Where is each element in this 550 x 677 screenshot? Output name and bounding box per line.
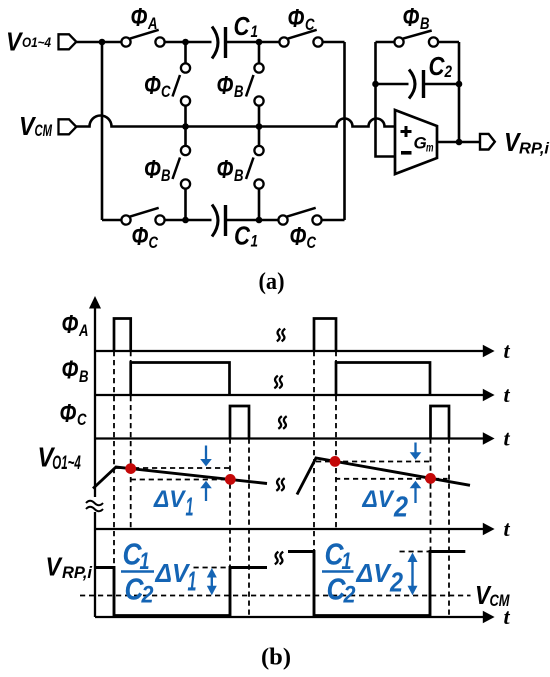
svg-text:O1~4: O1~4 — [22, 34, 51, 50]
capacitor C1 bottom — [212, 205, 226, 237]
svg-text:CM: CM — [490, 592, 511, 610]
svg-text:Φ: Φ — [131, 2, 148, 32]
PhiA pulses — [114, 319, 336, 352]
svg-text:ΔV: ΔV — [356, 558, 393, 588]
svg-text:2: 2 — [141, 582, 154, 609]
svg-text:ΔV: ΔV — [155, 558, 191, 588]
wire right vertical — [343, 42, 346, 220]
wire left vertical — [101, 42, 104, 220]
svg-text:RP,i: RP,i — [519, 141, 550, 158]
svg-text:2: 2 — [444, 62, 453, 81]
wire top rail left — [76, 41, 121, 44]
switch PhiB column1 lower — [173, 146, 191, 189]
label PhiC column1 upper — [144, 70, 171, 101]
svg-text:A: A — [147, 14, 157, 33]
svg-text:(b): (b) — [261, 644, 291, 671]
capacitor C2 — [376, 70, 460, 99]
svg-text:2: 2 — [393, 492, 408, 524]
C2 block top wire — [376, 41, 460, 44]
wire bottom rail after C1 — [227, 219, 278, 222]
node junction bottom rail x=259 — [256, 217, 263, 224]
svg-text:B: B — [234, 166, 244, 185]
output pin VRP,i — [480, 134, 495, 150]
svg-text:RP,i: RP,i — [62, 564, 92, 582]
dashed guide horizontals — [116, 462, 448, 568]
wire bottom rail mid — [165, 219, 212, 222]
node junction mid rail x=259 — [256, 123, 263, 130]
switch PhiB column2 lower — [246, 146, 264, 189]
svg-text:t: t — [504, 382, 511, 407]
switch PhiC top-right — [279, 30, 322, 47]
node VCM label — [19, 111, 53, 141]
C2 block right vertical wire — [458, 42, 461, 142]
svg-text:V: V — [46, 552, 64, 582]
wire VCM rail with hops — [76, 116, 395, 127]
axis VRP row — [95, 616, 484, 618]
svg-text:B: B — [79, 367, 89, 386]
node VRP,i label — [504, 127, 550, 158]
svg-text:1: 1 — [188, 566, 197, 597]
label PhiB C2 — [403, 2, 430, 33]
wire column1 segments — [184, 42, 187, 220]
svg-text:C: C — [234, 221, 251, 251]
node junction C2 left — [372, 81, 379, 88]
svg-text:1: 1 — [251, 232, 259, 251]
label VCM level — [475, 580, 510, 610]
svg-text:C: C — [149, 233, 159, 252]
label PhiB column2 lower — [217, 154, 244, 185]
label C1 top — [234, 11, 259, 41]
svg-text:Φ: Φ — [403, 2, 420, 32]
label deltaV2 VRP — [356, 558, 404, 598]
node junction top rail x=259 — [256, 39, 263, 46]
svg-text:Φ: Φ — [144, 154, 161, 184]
label VRP,i row — [46, 552, 93, 583]
break PhiB row — [274, 376, 282, 389]
label PhiA — [131, 2, 158, 33]
svg-text:Φ: Φ — [60, 398, 77, 428]
svg-text:G: G — [414, 134, 427, 153]
label VO1~4 row — [38, 442, 82, 475]
svg-text:C: C — [307, 233, 317, 252]
svg-text:Φ: Φ — [62, 309, 79, 339]
break PhiC row — [278, 416, 286, 429]
fraction C1/C2 second — [322, 537, 356, 609]
axis break left — [86, 501, 103, 512]
switch PhiB column2 upper — [246, 63, 264, 105]
wire column2 segments — [258, 42, 261, 220]
node junction bottom rail x=185 — [182, 217, 189, 224]
label PhiC row — [60, 398, 88, 429]
wire bottom rail right — [322, 219, 345, 222]
input pin VCM — [59, 119, 77, 134]
label PhiB row — [62, 355, 89, 387]
svg-text:t: t — [504, 426, 511, 451]
svg-text:2: 2 — [389, 567, 403, 598]
VRP waveform — [95, 552, 465, 616]
svg-text:Φ: Φ — [132, 221, 149, 251]
svg-text:Φ: Φ — [290, 221, 307, 251]
svg-text:C: C — [161, 82, 171, 101]
switch PhiC bottom-left — [121, 208, 164, 225]
label C2 — [429, 51, 453, 81]
svg-text:A: A — [78, 321, 88, 340]
svg-text:B: B — [234, 82, 244, 101]
sample dot 3 — [330, 456, 341, 467]
label PhiC bottom-right — [290, 221, 317, 252]
svg-text:Φ: Φ — [217, 154, 234, 184]
axis vertical — [94, 299, 96, 617]
capacitor C1 top — [212, 27, 226, 59]
switch PhiC bottom-right — [278, 208, 321, 225]
deltaV2 arrows — [410, 443, 422, 504]
svg-text:1: 1 — [186, 492, 194, 522]
fraction C1/C2 first — [121, 537, 154, 609]
label PhiC top-right — [288, 3, 316, 34]
svg-text:B: B — [161, 166, 171, 185]
label C1 bottom — [234, 221, 258, 251]
dashed line VCM level — [80, 595, 471, 597]
measure arrow C1C2dV2 — [408, 553, 418, 596]
svg-text:Φ: Φ — [144, 70, 161, 100]
VO waveform segment 2 — [297, 458, 470, 495]
svg-text:t: t — [504, 338, 511, 363]
svg-text:2: 2 — [343, 582, 356, 609]
axis PhiA row — [95, 350, 484, 352]
label deltaV2 — [362, 486, 408, 524]
svg-text:B: B — [420, 14, 430, 33]
label PhiC bottom-left — [132, 221, 159, 252]
node junction top rail x=185 — [182, 39, 189, 46]
svg-text:1: 1 — [251, 22, 259, 41]
svg-text:m: m — [426, 141, 434, 155]
op-amp Gm — [395, 110, 437, 174]
wire top rail right — [323, 41, 345, 44]
axis VO row — [95, 528, 484, 530]
wire top rail mid — [165, 41, 212, 44]
measure arrow C1C2dV1 — [207, 568, 217, 595]
deltaV1 arrows — [200, 446, 212, 502]
svg-text:(a): (a) — [259, 268, 285, 295]
axis PhiC row — [95, 437, 484, 439]
sample dot 4 — [425, 473, 436, 484]
sample dot 2 — [225, 474, 236, 485]
node junction C2 right — [456, 81, 463, 88]
svg-text:Φ: Φ — [62, 355, 79, 385]
switch PhiB C2 — [394, 31, 438, 47]
svg-text:C: C — [305, 15, 315, 34]
PhiB pulses — [131, 363, 430, 396]
sample dot 1 — [125, 463, 136, 474]
svg-text:CM: CM — [35, 122, 53, 140]
switch PhiC column1 upper — [173, 63, 191, 105]
node junction top-left — [99, 39, 106, 46]
svg-text:Φ: Φ — [217, 70, 234, 100]
svg-text:C: C — [77, 410, 87, 429]
break VRP row — [275, 552, 283, 565]
switch PhiA — [121, 30, 164, 47]
break VO row — [276, 478, 284, 491]
svg-text:Φ: Φ — [288, 3, 305, 33]
label PhiB column1 lower — [144, 154, 171, 185]
axis PhiB row — [95, 394, 484, 396]
svg-text:O1~4: O1~4 — [52, 453, 81, 474]
label deltaV1 VRP — [155, 558, 197, 597]
break PhiA row — [277, 329, 285, 342]
svg-text:C: C — [234, 11, 251, 41]
input pin VO1~4 — [59, 34, 77, 49]
svg-text:t: t — [504, 516, 511, 541]
PhiC pulses — [230, 406, 449, 439]
VO waveform segment 1 — [93, 467, 267, 489]
dashed guide verticals — [114, 351, 449, 616]
wire op-amp output — [437, 141, 480, 144]
svg-text:C: C — [429, 51, 446, 81]
wire bottom rail left — [102, 219, 121, 222]
label PhiA row — [62, 309, 89, 340]
node junction output — [456, 139, 463, 146]
label deltaV1 — [153, 486, 193, 522]
wire top rail after C1 — [227, 41, 279, 44]
C2 block left vertical wire — [376, 42, 396, 157]
svg-text:ΔV: ΔV — [362, 486, 395, 513]
svg-text:ΔV: ΔV — [153, 486, 186, 513]
node VO1~4 label — [6, 27, 51, 57]
label PhiB column2 upper — [217, 70, 244, 101]
node junction mid rail x=185 — [182, 123, 189, 130]
